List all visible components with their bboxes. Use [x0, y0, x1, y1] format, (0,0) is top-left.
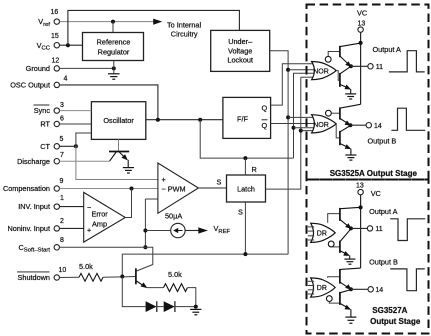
wire Discharge pin7 to Q1 collector [60, 160, 111, 162]
svg-text:Shutdown: Shutdown [18, 273, 50, 282]
svg-text:50µA: 50µA [165, 212, 182, 221]
diode D1 [146, 301, 157, 312]
svg-text:SG3525A Output Stage: SG3525A Output Stage [330, 169, 418, 178]
svg-text:5.0k: 5.0k [79, 262, 93, 271]
input stubs DR2 [308, 281, 314, 294]
wire DR1 bubble to T6 base [331, 246, 339, 248]
wire Compensation pin9 to PWM inverting input [60, 188, 158, 190]
node output A bottom box [349, 226, 353, 230]
svg-text:Output B: Output B [369, 257, 398, 266]
wire soft-start node vertical [144, 199, 146, 247]
svg-text:4: 4 [64, 76, 68, 83]
junction VC T5 collector [359, 205, 363, 209]
svg-text:Output A: Output A [369, 207, 398, 216]
svg-text:OSC Output: OSC Output [10, 81, 50, 90]
svg-text:Output Stage: Output Stage [370, 317, 421, 326]
transistor Q1 discharge [109, 152, 129, 168]
wire Sync pin3 to oscillator [60, 110, 92, 112]
svg-text:SG3527A: SG3527A [372, 306, 407, 315]
node output A top box [349, 64, 353, 68]
svg-text:Compensation: Compensation [3, 184, 50, 193]
wire RefReg bottom to ground [113, 61, 115, 74]
svg-text:CT: CT [40, 142, 50, 151]
svg-text:12: 12 [52, 58, 60, 65]
wire blanking down to latch R rail [200, 120, 293, 158]
ground symbol G3 shutdown [190, 309, 201, 314]
pin 1 INV. Input [18, 195, 64, 211]
wire error amp output to compensation node [125, 189, 131, 218]
wire RefReg top to Vref rail [112, 22, 114, 33]
svg-text:+: + [162, 175, 166, 184]
wire node to pin 14 [350, 124, 366, 126]
wire latch out to NOR1 input [301, 76, 315, 78]
junction VC T1 collector [359, 41, 363, 45]
junction UVL NOR1 [286, 68, 290, 72]
svg-text:RT: RT [40, 120, 50, 129]
dashed box SG3525A output stage [307, 5, 429, 180]
svg-text:Error: Error [92, 209, 109, 218]
flip-flop U7 F/F [223, 97, 271, 138]
pin 8 C Soft-Start [19, 237, 64, 254]
waveform output B pulse [391, 108, 425, 130]
svg-text:INV. Input: INV. Input [18, 202, 50, 211]
wire F/F Qbar to NOR2 [271, 123, 315, 125]
svg-text:13: 13 [356, 183, 364, 190]
svg-text:To Internal: To Internal [167, 20, 201, 29]
gate NOR1 [312, 62, 337, 80]
diode D2 [164, 301, 175, 312]
wire 50uA to soft-start node [145, 230, 170, 232]
svg-text:VC: VC [357, 9, 367, 18]
svg-text:S: S [217, 177, 222, 186]
junction latch out NOR2 [299, 129, 303, 133]
junction Vref-RefReg [111, 20, 115, 24]
bubble NOR1 output [325, 56, 331, 62]
current source I1 50uA [165, 212, 185, 238]
junction ground [112, 66, 116, 70]
wire F/F Q to NOR1 [271, 64, 315, 105]
wire DR1 top output to T5 base [328, 214, 340, 223]
transistor T1 [340, 43, 361, 67]
wire latch R input [244, 158, 246, 175]
svg-text:Discharge: Discharge [17, 157, 50, 166]
junction UVL NOR2 [286, 115, 290, 119]
svg-text:9: 9 [60, 178, 64, 185]
gate NOR2 [312, 115, 337, 133]
wire Q2 emitter to R2 [147, 287, 164, 289]
svg-text:Ground: Ground [26, 64, 50, 73]
dashed box SG3527A output stage [307, 180, 429, 334]
svg-text:1: 1 [60, 195, 64, 202]
svg-text:Lockout: Lockout [227, 56, 253, 65]
svg-text:Oscillator: Oscillator [103, 116, 134, 125]
svg-text:Sync: Sync [34, 106, 51, 115]
waveform output A inverted [390, 219, 425, 241]
pin 6 RT [40, 116, 64, 129]
svg-text:Output A: Output A [373, 45, 402, 54]
wire UVL output down the bus [270, 51, 289, 255]
ground symbol G5 totem B [345, 155, 356, 160]
ground symbol G4 totem A [345, 94, 356, 99]
junction shutdown ground [194, 305, 198, 309]
svg-text:Q: Q [262, 104, 268, 113]
wire CT pin5 [60, 145, 76, 147]
svg-text:5: 5 [60, 136, 64, 143]
pin 12 Ground [26, 58, 60, 73]
svg-text:Noninv. Input: Noninv. Input [8, 224, 50, 233]
svg-text:11: 11 [375, 226, 382, 233]
op-amp U4 Error Amp [84, 192, 126, 242]
op-amp U5 PWM comparator [158, 163, 199, 213]
svg-text:6: 6 [60, 116, 64, 123]
svg-text:Amp: Amp [92, 220, 107, 229]
transistor T5 [340, 207, 361, 229]
transistor T2 [340, 66, 351, 93]
svg-text:16: 16 [51, 9, 59, 16]
label VC pin13 top [357, 9, 367, 33]
node output B top box [348, 123, 352, 127]
svg-text:VC: VC [371, 189, 381, 198]
ground symbol G7 bottom totem B [345, 317, 356, 323]
junction latch S soft-start line [243, 252, 247, 256]
wire D1 to D2 [157, 306, 164, 308]
svg-text:Regulator: Regulator [98, 48, 130, 57]
junction VCC [66, 43, 70, 47]
svg-text:10: 10 [59, 267, 67, 274]
wire R2 to ground node [188, 288, 196, 307]
wire node to pin 11 bottom [351, 227, 367, 229]
gate DR2 [311, 278, 336, 297]
wire DR2 top output to T7 base [328, 277, 340, 278]
pin 9 Compensation [3, 178, 64, 193]
junction osc blanking [198, 118, 202, 122]
transistor T8 [340, 290, 351, 317]
wire NOR2 output to T4 base [336, 124, 339, 138]
svg-text:Output B: Output B [368, 136, 397, 145]
ground symbol G6 bottom totem A [344, 259, 355, 264]
gate DR1 [311, 223, 336, 242]
wire blanking to NOR2 input [294, 127, 315, 129]
wire Vref pin16 to internal circuitry [60, 21, 154, 23]
junction shutdown node [120, 275, 124, 279]
pin 4 OSC Output [10, 76, 67, 90]
ground symbol G1 [108, 74, 120, 79]
svg-text:14: 14 [375, 287, 383, 294]
pin 3 Sync [34, 102, 65, 115]
svg-text:3: 3 [60, 102, 64, 109]
junction osc output pin4 [156, 118, 160, 122]
wire Ground pin12 [60, 67, 114, 69]
wire latch out to NOR2 input [301, 130, 315, 132]
pin 7 Discharge [17, 152, 64, 166]
wire blanking rail up to NOR1 input [294, 73, 315, 158]
svg-text:DR: DR [317, 285, 327, 292]
svg-text:7: 7 [60, 152, 64, 159]
wire oscillator output to F/F clock [146, 119, 223, 121]
oscillator U3 [91, 102, 145, 140]
ground symbol G2 discharge [123, 168, 134, 173]
svg-text:+: + [87, 225, 91, 234]
regulator U1 Reference Regulator [83, 33, 144, 61]
wire CT to PWM ramp input [76, 146, 158, 179]
wire latch output to NOR bus [266, 77, 301, 189]
pin 11 bottom box [367, 226, 382, 234]
junction soft-start 50uA [143, 229, 147, 233]
svg-text:15: 15 [51, 33, 59, 40]
svg-text:Reference: Reference [97, 38, 131, 47]
wire soft-start to PWM third input [145, 198, 158, 200]
svg-text:5.0k: 5.0k [168, 270, 182, 279]
bubble DR1 output [328, 241, 334, 247]
wire UVL to NOR1 input [288, 69, 314, 71]
arrow to VREF [198, 227, 208, 233]
svg-text:DR: DR [317, 230, 327, 237]
svg-text:S: S [238, 207, 243, 216]
pin 5 CT [40, 136, 63, 151]
svg-text:2: 2 [60, 218, 64, 225]
transistor Q2 shutdown [136, 268, 148, 288]
latch U6 [227, 175, 266, 202]
svg-text:NOR: NOR [313, 68, 329, 75]
wire VCC up and over to UVL [68, 10, 240, 45]
wire RT pin6 to oscillator [60, 123, 92, 125]
comparator U2 Under-Voltage Lockout [211, 30, 270, 71]
wire NOR1 output to T2 base [336, 71, 339, 81]
wire oscillator to discharge transistor base [118, 139, 120, 151]
wire D2 to ground node [175, 306, 196, 308]
junction compensation [130, 187, 134, 191]
svg-text:R: R [252, 165, 257, 174]
pin 14 output B [366, 123, 396, 146]
pin 2 Noninv. Input [8, 218, 64, 233]
wire OSC Output pin4 to oscillator output node [60, 85, 158, 120]
input stubs DR1 [308, 227, 314, 240]
wire node to pin 11 [351, 65, 368, 67]
waveform output A pulse [389, 51, 425, 72]
svg-text:11: 11 [376, 64, 383, 71]
label VC pin13 bottom box [356, 183, 381, 198]
wire 50uA to Vref arrow [185, 230, 199, 232]
wire VC rail bottom box [360, 195, 362, 268]
pin 15 VCC [37, 33, 60, 52]
wire shutdown node down to diodes [122, 277, 145, 307]
wire latch S bottom to soft-start line [244, 202, 246, 254]
svg-text:Voltage: Voltage [228, 46, 252, 55]
wire node to pin 14 bottom [351, 288, 368, 290]
pin 16 Vref [38, 9, 59, 28]
svg-text:Q: Q [262, 121, 268, 130]
svg-text:− PWM: − PWM [162, 185, 186, 194]
svg-text:F/F: F/F [237, 115, 248, 124]
resistor R2 5.0k [164, 270, 188, 292]
wire VCC pin15 to Reference Regulator [60, 44, 83, 46]
transistor T4 [340, 126, 351, 155]
waveform output B inverted [390, 269, 425, 291]
wire VC rail top box [360, 32, 362, 104]
node output B bottom box [349, 287, 353, 291]
transistor T3 [340, 104, 361, 125]
wire INV. Input pin1 to error amp [60, 206, 84, 208]
pin 10 Shutdown [17, 267, 66, 282]
junction latch R blanking [243, 156, 247, 160]
svg-text:Under–: Under– [228, 37, 253, 46]
wire CT to oscillator [76, 133, 92, 146]
wire NOR1 bubble to T1 base [328, 52, 339, 57]
svg-text:Circuitry: Circuitry [171, 30, 198, 39]
svg-text:8: 8 [60, 237, 64, 244]
transistor T6 [340, 229, 351, 259]
svg-text:14: 14 [374, 123, 382, 130]
junction CT [74, 144, 78, 148]
wire DR2 bubble to T8 base [329, 302, 339, 304]
wire shutdown set line [122, 254, 288, 276]
svg-text:NOR: NOR [313, 122, 329, 129]
wire PWM output to latch S [198, 187, 226, 189]
junction blanking NOR2 [292, 126, 296, 130]
wire Noninv. Input pin2 to error amp [60, 227, 84, 229]
resistor R1 5.0k shutdown [60, 262, 136, 281]
wire NOR2 bubble to T3 base [331, 112, 339, 114]
svg-text:13: 13 [358, 20, 366, 27]
wire C soft-start pin8 to shutdown transistor collector [60, 247, 153, 271]
label SG3527A Output Stage [370, 306, 421, 326]
svg-text:Latch: Latch [237, 185, 255, 194]
wire UVL to NOR2 input [288, 116, 314, 118]
transistor T7 [340, 268, 361, 290]
bubble DR2 output [326, 296, 332, 302]
junction soft-start pin8 [143, 245, 147, 249]
bubble NOR2 output [326, 110, 332, 116]
arrow to internal circuitry [153, 19, 162, 25]
pin 11 output A [368, 45, 401, 71]
pin 14 bottom box [368, 287, 383, 295]
